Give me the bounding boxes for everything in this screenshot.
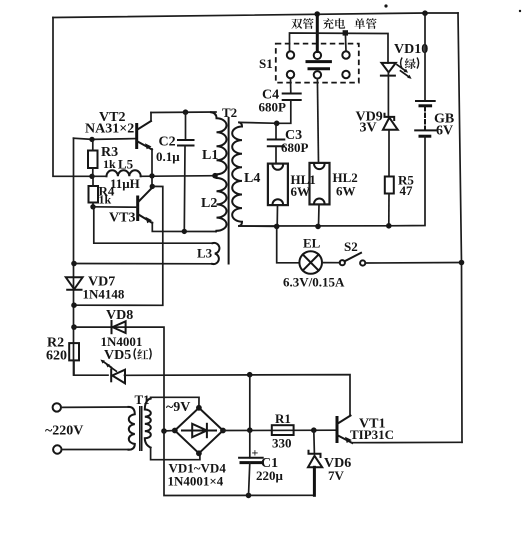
inductor L3	[212, 243, 219, 264]
winding L2	[215, 176, 227, 232]
node: C2 top	[183, 109, 189, 115]
svg-text:NA31×2: NA31×2	[85, 122, 134, 137]
svg-text:47: 47	[400, 183, 414, 198]
VD5 arrows	[103, 361, 113, 368]
wire: VT3 base from R4	[93, 206, 138, 208]
resistor R2	[46, 336, 79, 364]
wire: oscillator top	[151, 111, 216, 114]
svg-text:11μH: 11μH	[110, 176, 140, 191]
S1 top contacts	[287, 51, 294, 58]
node: feedback bus	[71, 302, 77, 308]
svg-text:1N4001: 1N4001	[101, 334, 143, 349]
terminal ~220V top	[53, 403, 61, 411]
svg-text:680P: 680P	[259, 100, 287, 115]
LED VD10	[381, 42, 428, 117]
wire: right bus down	[458, 13, 462, 442]
wire: L3 bottom link	[74, 263, 213, 265]
node: C1 top tap	[247, 427, 253, 433]
svg-text:0.1μ: 0.1μ	[156, 149, 180, 164]
svg-text:~220V: ~220V	[45, 424, 83, 439]
lamp tube HL2	[310, 79, 358, 227]
svg-text:6W: 6W	[336, 184, 356, 199]
svg-text:VD10: VD10	[394, 42, 428, 57]
node: C1 ground	[246, 493, 252, 499]
svg-text:L2: L2	[201, 196, 217, 211]
capacitor C4	[259, 78, 301, 123]
winding L4	[232, 122, 242, 226]
wire: VT2 base feed	[74, 138, 137, 139]
node: VD8 bus	[71, 324, 77, 330]
zener VD6	[308, 430, 351, 495]
wire: top supply bus	[53, 13, 458, 18]
wire: VT3 emitter bottom	[152, 223, 216, 232]
transistor VT3	[109, 188, 152, 226]
speck top right	[384, 4, 387, 7]
VD10 arrows	[396, 64, 406, 71]
S1 square node	[343, 30, 348, 35]
node: C2 bottom	[182, 229, 187, 234]
svg-text:680P: 680P	[281, 140, 309, 155]
svg-text:7V: 7V	[328, 468, 345, 483]
wire: ground drop	[164, 431, 314, 496]
battery GB	[389, 13, 454, 226]
svg-text:220μ: 220μ	[256, 468, 284, 483]
wire: secondary bottom to bridge	[151, 447, 200, 459]
S1 center stem	[316, 14, 319, 52]
node: top S1 stem	[314, 11, 320, 17]
svg-text:L5: L5	[118, 157, 134, 172]
bridge rectifier VD1-VD4	[166, 400, 226, 489]
node: center tap	[212, 173, 218, 179]
wire: feedback drop	[74, 186, 163, 305]
capacitor C1	[239, 430, 283, 495]
svg-text:C2: C2	[159, 135, 176, 150]
node: R3 bottom	[89, 174, 94, 179]
transistor VT2	[137, 113, 152, 187]
wire: lamp bus	[239, 225, 389, 227]
node: bus R5	[386, 223, 392, 229]
node: C3/C4/L4	[274, 121, 280, 127]
node: VT2 base	[89, 137, 94, 142]
S1 feed wire	[290, 33, 389, 63]
diode VD8	[74, 308, 164, 431]
svg-text:EL: EL	[303, 236, 321, 251]
wire: AC left link	[164, 430, 175, 433]
wire: tap down to R1 rail	[249, 375, 251, 431]
svg-text:S2: S2	[344, 239, 358, 254]
svg-text:L1: L1	[202, 148, 218, 163]
resistor R4	[89, 186, 99, 203]
transistor VT1	[337, 416, 462, 444]
node: bus HL2	[315, 224, 321, 230]
svg-text:S1: S1	[259, 56, 273, 71]
svg-text:330: 330	[272, 436, 292, 451]
transformer T2	[201, 105, 260, 264]
svg-text:1N4148: 1N4148	[83, 287, 125, 302]
resistor R1	[272, 411, 294, 451]
capacitor C2	[156, 112, 194, 231]
wire: inner left bus	[73, 138, 75, 375]
svg-text:6W: 6W	[291, 184, 311, 199]
T1 primary	[129, 407, 135, 450]
svg-text:VD5: VD5	[104, 348, 131, 363]
wire: left outer bus	[53, 18, 92, 177]
wire: L4 bottom out	[239, 225, 276, 227]
LED VD5	[74, 348, 151, 383]
svg-text:TIP31C: TIP31C	[350, 427, 394, 442]
S1 wiper bars	[307, 60, 330, 63]
wire: DC+ rail	[223, 429, 336, 431]
svg-text:6.3V/0.15A: 6.3V/0.15A	[283, 275, 345, 290]
T1 secondary	[145, 398, 151, 447]
transformer T1	[129, 392, 151, 451]
node: VD6 tap	[311, 427, 317, 433]
svg-text:620: 620	[46, 349, 67, 364]
node: emitter/mid	[149, 173, 154, 178]
lamp tube HL1	[268, 164, 316, 227]
resistor R5	[385, 173, 415, 226]
svg-text:1N4001×4: 1N4001×4	[168, 474, 224, 489]
label 单管	[354, 18, 365, 29]
node: top battery tap	[422, 10, 428, 16]
node: L3 left bus	[71, 261, 77, 267]
svg-text:1k: 1k	[103, 157, 116, 171]
switch S1	[259, 14, 388, 83]
diode VD7	[66, 275, 125, 302]
switch S2	[322, 239, 462, 266]
svg-text:VT3: VT3	[109, 211, 135, 226]
zener VD9	[356, 110, 398, 177]
terminal ~220V bottom	[53, 445, 61, 453]
node: bus HL1	[274, 224, 280, 230]
lamp EL	[277, 226, 345, 289]
node: VT3 collector	[150, 184, 155, 189]
svg-text:1k: 1k	[99, 193, 112, 207]
inductor L5	[107, 170, 141, 176]
wire: secondary top to bridge	[151, 397, 199, 408]
svg-text:R1: R1	[275, 411, 291, 426]
svg-text:3V: 3V	[360, 121, 377, 136]
wire: mid center-tap	[141, 175, 216, 178]
winding L1	[211, 112, 227, 176]
S1 bottom contacts	[287, 71, 294, 78]
resistor R3	[88, 151, 98, 169]
svg-text:~9V: ~9V	[166, 400, 190, 415]
node: R4 base node	[90, 204, 95, 209]
node: VD5 wire tap	[247, 372, 253, 378]
svg-text:L3: L3	[197, 246, 213, 261]
svg-text:VD8: VD8	[106, 308, 133, 323]
svg-text:L4: L4	[244, 171, 260, 186]
label 充电	[323, 18, 334, 29]
capacitor C3	[268, 123, 309, 163]
wire: L4 top out	[239, 121, 277, 124]
label 双管	[291, 19, 302, 29]
svg-text:6V: 6V	[436, 124, 453, 139]
wire: L3 top link	[94, 207, 213, 243]
svg-text:+: +	[252, 446, 259, 460]
T2 core	[228, 118, 230, 264]
wire: VD5 to VT1 collector	[125, 375, 351, 416]
node: AC left tap	[161, 428, 167, 434]
node: right bus S2	[459, 260, 465, 266]
